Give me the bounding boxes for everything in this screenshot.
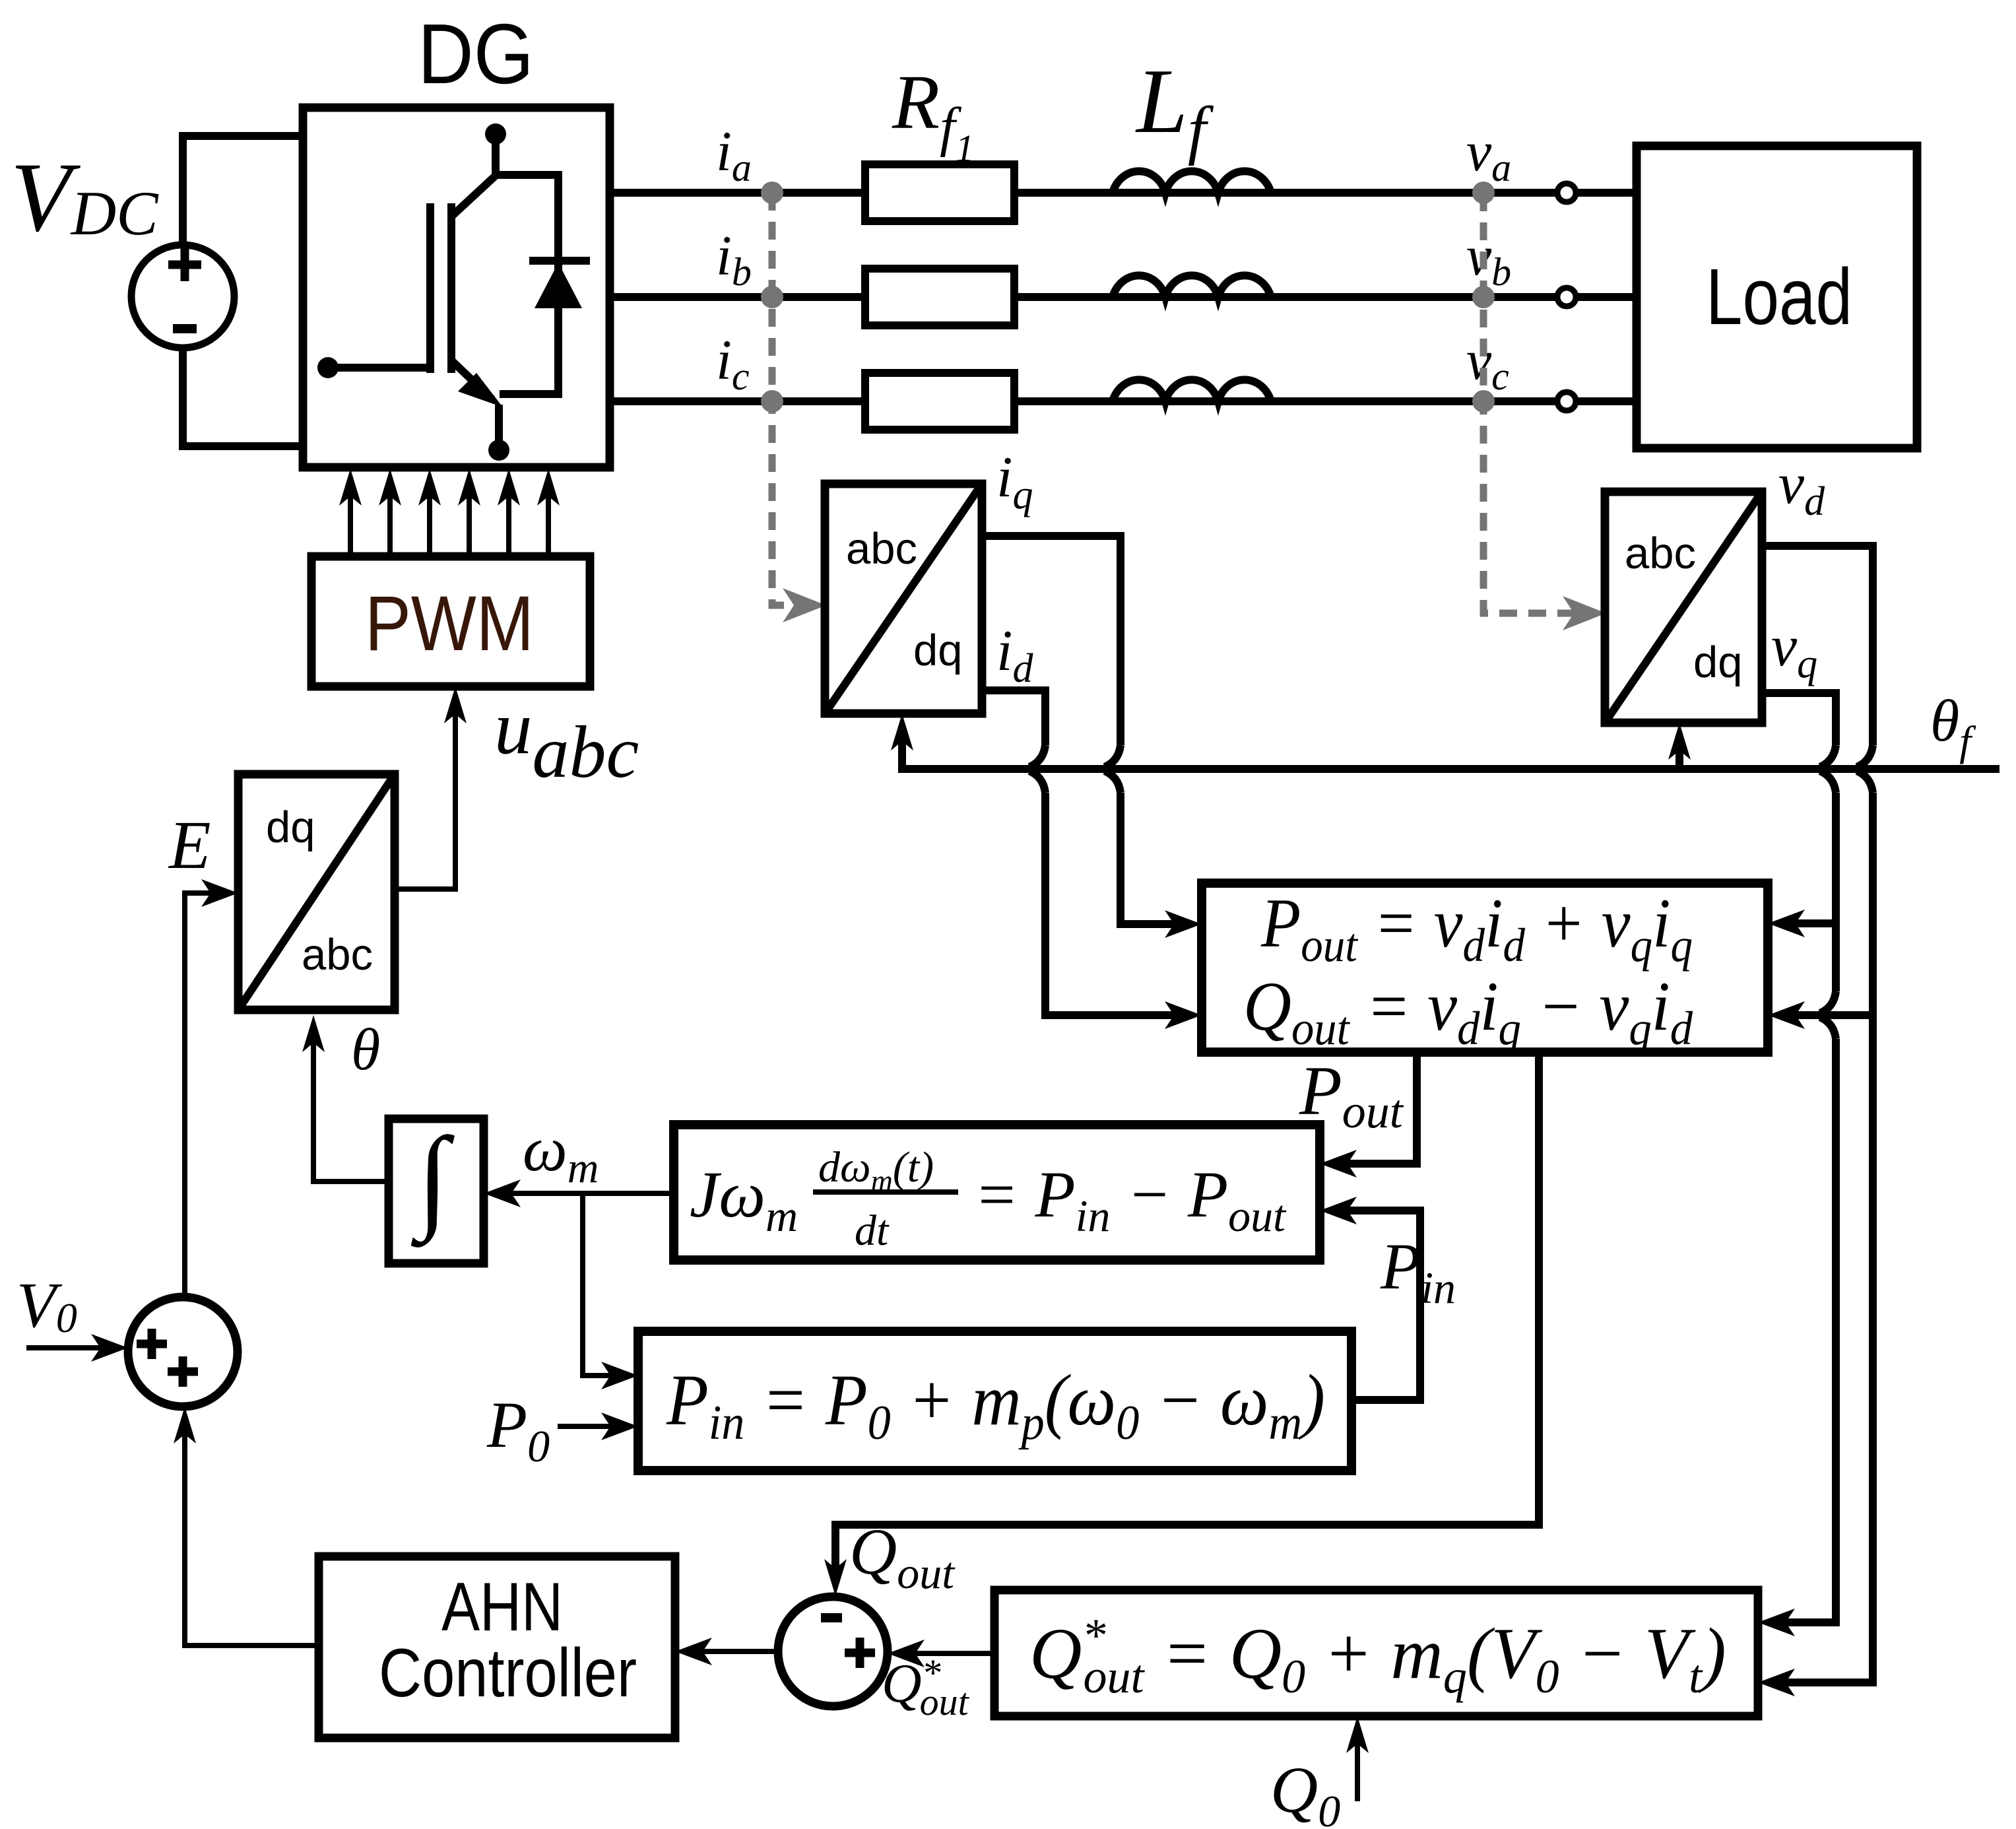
label ib — [716, 224, 752, 294]
wire theta integrator to dq-abc block — [302, 1015, 389, 1181]
wire Q0 input — [1346, 1716, 1369, 1801]
PQ equation box — [1202, 883, 1768, 1052]
summing junction V0 — [128, 1297, 238, 1407]
swing equation box — [674, 1125, 1320, 1260]
abc to dq current transform block — [825, 484, 982, 714]
label ia — [716, 119, 752, 189]
label Lf — [1135, 50, 1214, 166]
label vq — [1771, 615, 1817, 686]
current measurement dashed tap — [772, 193, 826, 622]
IGBT Q1 — [328, 134, 503, 450]
current tap dot ia — [761, 182, 783, 204]
wire VDC- to DG — [183, 348, 307, 446]
Qstar equation text — [1029, 1609, 1726, 1703]
wire AHN to V0 junction — [174, 1407, 319, 1646]
wire vq — [1758, 693, 1836, 1636]
phase line ib — [606, 293, 1637, 301]
wire omega_m — [484, 1180, 674, 1207]
svg-text:E: E — [168, 807, 211, 883]
label Load — [1706, 251, 1852, 341]
svg-text:∫: ∫ — [410, 1114, 455, 1247]
voltage source VDC — [131, 245, 234, 348]
svg-text:Controller: Controller — [379, 1635, 637, 1712]
hop id over theta — [1029, 745, 1045, 793]
wire VDC+ to DG — [183, 136, 307, 245]
label V0 — [16, 1270, 77, 1341]
svg-text:θ: θ — [351, 1017, 380, 1082]
label iq — [996, 446, 1033, 517]
Qstar equation box — [994, 1590, 1758, 1716]
svg-text:Load: Load — [1706, 251, 1852, 341]
svg-text:PWM: PWM — [365, 580, 534, 667]
wire uabc to PWM — [395, 686, 467, 889]
swing equation text — [690, 1143, 1287, 1255]
label Pout feedback — [1299, 1052, 1404, 1138]
voltage tap dot vc — [1472, 390, 1495, 413]
phase line ia — [606, 189, 1637, 197]
label theta — [351, 1017, 380, 1082]
voltage tap dot va — [1472, 182, 1495, 204]
theta_f branch to voltage block — [1668, 723, 1691, 769]
Pin droop equation box — [638, 1331, 1351, 1471]
wire vd — [1758, 546, 1873, 1696]
svg-text:dq: dq — [1693, 638, 1743, 687]
hop vq vertical over vd tap — [1820, 991, 1836, 1039]
resistor Rf1 phase c — [865, 373, 1014, 430]
svg-text:abc: abc — [1625, 529, 1696, 578]
summing junction Q — [778, 1597, 888, 1706]
label vb — [1466, 224, 1511, 294]
svg-text:abc: abc — [846, 524, 917, 574]
wire P0 input — [558, 1413, 638, 1440]
PWM block — [311, 556, 590, 686]
label PWM — [365, 580, 534, 667]
hop vd over theta — [1857, 745, 1873, 793]
label id — [996, 619, 1033, 691]
PWM gate drive arrows — [339, 469, 560, 556]
diode D1 — [496, 175, 590, 394]
wire junction to AHN — [675, 1638, 777, 1665]
wire Pin to swing box — [1320, 1197, 1420, 1400]
wire vd tap to PQ box — [1768, 1001, 1873, 1029]
DG box — [303, 108, 610, 467]
resistor Rf1 phase b — [865, 269, 1014, 325]
svg-text:dq: dq — [266, 803, 315, 852]
wire E from V0 junction — [185, 879, 238, 1297]
wire Pout feedback — [1320, 1052, 1417, 1178]
IGBT Q1 gate node dot — [317, 357, 339, 378]
label va — [1466, 119, 1511, 189]
open terminal circle phase b — [1557, 288, 1576, 306]
dq to abc transform block — [238, 774, 395, 1010]
open terminal circle phase a — [1557, 183, 1576, 202]
wire iq — [982, 536, 1202, 938]
wire omega_m branch to Pin box — [583, 1193, 638, 1389]
label uabc — [494, 686, 639, 793]
wire vq tap to PQ box — [1768, 910, 1836, 937]
label P0 — [486, 1388, 550, 1471]
wire id — [982, 690, 1202, 1029]
PQ equations text — [1243, 884, 1693, 1055]
label omega_m — [523, 1114, 599, 1192]
label Qstar_out small — [882, 1651, 970, 1723]
Load box — [1637, 146, 1917, 448]
inductor Lf phase b — [1113, 275, 1271, 297]
current tap dot ic — [761, 390, 783, 413]
label E — [168, 807, 211, 883]
IGBT Q1 emitter node dot — [488, 440, 509, 461]
wire Qout to junction — [824, 1052, 1539, 1596]
open terminal circle phase c — [1557, 392, 1576, 411]
label Q0 — [1270, 1753, 1340, 1829]
abc to dq voltage transform block — [1605, 492, 1762, 723]
wire V0 input — [26, 1334, 128, 1362]
current tap dot ib — [761, 286, 783, 308]
svg-text:DG: DG — [418, 7, 534, 102]
label Rf1 — [892, 59, 974, 170]
phase line ic — [606, 397, 1637, 405]
label Qout — [849, 1515, 956, 1598]
label ic — [716, 328, 750, 398]
svg-text:AHN: AHN — [441, 1569, 563, 1646]
label vd — [1778, 452, 1825, 524]
theta_f line — [891, 714, 2000, 769]
svg-text:abc: abc — [302, 930, 373, 980]
IGBT Q1 collector node dot — [485, 123, 506, 145]
inductor Lf phase a — [1113, 171, 1271, 193]
wire Qstar to junction — [888, 1640, 994, 1667]
label VDC — [11, 143, 159, 252]
label Pin — [1380, 1230, 1456, 1313]
label theta_f — [1930, 688, 1976, 764]
AHN controller box — [319, 1556, 675, 1738]
label vc — [1466, 328, 1509, 398]
integrator block — [389, 1114, 484, 1263]
svg-text:Pin = P0 + mp(ω0 − ωm): Pin = P0 + mp(ω0 − ωm) — [666, 1360, 1325, 1450]
voltage measurement dashed tap — [1483, 193, 1606, 630]
resistor Rf1 phase a — [865, 164, 1014, 221]
Pin equation text — [666, 1360, 1325, 1450]
label DG — [418, 7, 534, 102]
hop iq over theta — [1105, 745, 1121, 793]
hop vq over theta — [1820, 745, 1836, 793]
voltage tap dot vb — [1472, 286, 1495, 308]
inductor Lf phase c — [1113, 380, 1271, 401]
svg-text:dt: dt — [855, 1207, 890, 1255]
svg-text:dq: dq — [913, 626, 963, 675]
